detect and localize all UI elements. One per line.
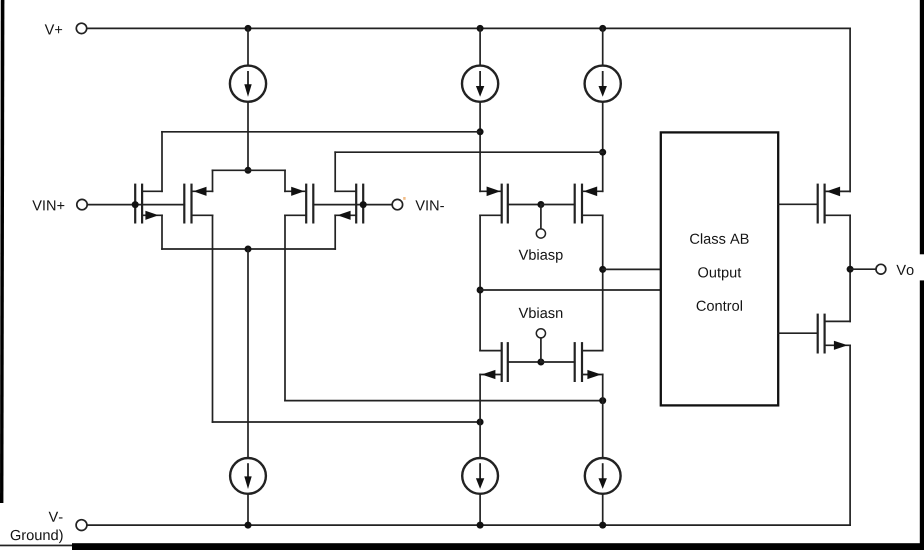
border bottom bar	[72, 543, 924, 550]
wire stub left	[212, 170, 214, 191]
transistor M6	[575, 185, 603, 223]
transistor M7	[480, 343, 508, 381]
wire M4 drain up	[334, 152, 336, 191]
node rail-I6	[599, 522, 606, 529]
terminal Vbiasp	[536, 229, 545, 238]
wire source coupling top pair	[213, 169, 286, 171]
node rail-I3	[599, 25, 606, 32]
transistor M9	[818, 185, 850, 223]
current source I3	[585, 66, 621, 102]
terminal V+	[76, 23, 86, 33]
wire M9 to Vo to M10	[849, 215, 851, 321]
current source I5	[462, 458, 498, 494]
wire M6 gate lead	[541, 204, 575, 206]
node rail-I5	[477, 522, 484, 529]
wire M2 drain down	[212, 215, 214, 422]
transistor M4	[335, 185, 363, 223]
wire VIN+	[87, 204, 184, 206]
transistor M2	[184, 185, 212, 223]
wire M1 drain up	[161, 132, 163, 192]
wire M5 gate lead	[508, 204, 541, 206]
node B	[477, 128, 484, 135]
wire source coupling bottom pair	[162, 248, 335, 250]
node rail-I4	[245, 522, 252, 529]
wire M1 drain bus	[162, 131, 480, 133]
node Vbiasp	[537, 201, 544, 208]
wire M4 drain right	[335, 151, 603, 153]
transistor M5	[480, 185, 508, 223]
label Class AB	[690, 233, 749, 244]
node rail-I2	[477, 25, 484, 32]
label Control	[697, 300, 742, 311]
label Vo	[896, 265, 913, 275]
wire I4 to rail	[247, 494, 249, 525]
wire M3 drain down	[284, 215, 286, 400]
node H	[599, 266, 606, 273]
wire I1 to node A	[247, 102, 249, 171]
label Ground)	[11, 530, 63, 544]
label VIN-	[415, 200, 444, 210]
wire M8 down to I6	[602, 375, 604, 459]
terminal Vbiasn	[536, 329, 545, 338]
wire M8 gate lead	[541, 361, 575, 363]
node E	[599, 397, 606, 404]
terminal VIN-	[392, 199, 402, 209]
artifact speck	[403, 197, 405, 200]
label Vbiasn	[519, 307, 563, 318]
wire Vbiasp stub	[540, 205, 542, 229]
wire M7 gate lead	[508, 361, 541, 363]
label VIN+	[32, 200, 64, 210]
node Vo	[847, 266, 854, 273]
border right strip lower	[920, 280, 924, 543]
wire rail to I3	[602, 28, 604, 65]
current source I6	[585, 458, 621, 494]
node rail-I1	[245, 25, 252, 32]
terminal VIN+	[77, 199, 87, 209]
node VIN- gate	[360, 201, 367, 208]
node D	[477, 419, 484, 426]
wire box to M9 gate	[778, 203, 818, 205]
wire box to M10 gate	[778, 332, 818, 334]
transistor M8	[575, 343, 603, 381]
wire M3 drain to node E	[285, 400, 603, 402]
wire V+ rail	[87, 27, 850, 29]
wire VIN-	[313, 204, 392, 206]
wire M4 source down	[334, 215, 336, 249]
label Output	[698, 267, 741, 280]
wire M7 down to I5	[479, 375, 481, 459]
wire node F down to I4	[247, 249, 249, 458]
wire rail drop right	[849, 28, 851, 191]
node F	[245, 246, 252, 253]
current source I1	[230, 66, 266, 102]
wire M2 drain to node D	[213, 421, 481, 423]
wire Vbiasn stub	[540, 338, 542, 362]
wire node H to box	[603, 268, 661, 270]
wire M1 source down	[161, 215, 163, 249]
wire I5 to rail	[479, 494, 481, 525]
label V+	[45, 24, 62, 34]
transistor M1	[135, 185, 162, 223]
transistor M10	[818, 315, 850, 353]
wire M10 source down	[849, 345, 851, 525]
node Vbiasn	[537, 359, 544, 366]
wire I6 to rail	[602, 494, 604, 525]
border left strip	[0, 0, 4, 503]
wire stub right	[284, 170, 286, 191]
current source I4	[230, 458, 266, 494]
wire rail to I1	[247, 28, 249, 65]
wire rail to I2	[479, 28, 481, 65]
node G	[477, 287, 484, 294]
label Vbiasp	[519, 249, 563, 263]
wire Vo	[850, 268, 876, 270]
node A	[245, 167, 252, 174]
wire I2 down to M5	[479, 102, 481, 192]
wire I3 down to M6	[602, 102, 604, 192]
wire V- rail	[87, 524, 850, 526]
label V-	[49, 512, 63, 522]
node C	[599, 149, 606, 156]
wire M6 down	[602, 215, 604, 350]
current source I2	[462, 66, 498, 102]
border bottom-left thin line	[0, 545, 72, 547]
terminal V-	[76, 520, 87, 531]
wire M5 down	[479, 215, 481, 350]
transistor M3	[285, 185, 313, 223]
Class AB control box U1	[661, 132, 778, 405]
border right strip upper	[920, 0, 924, 254]
node VIN+ gate	[132, 201, 139, 208]
terminal Vo	[876, 264, 886, 274]
wire node G to box	[480, 289, 661, 291]
